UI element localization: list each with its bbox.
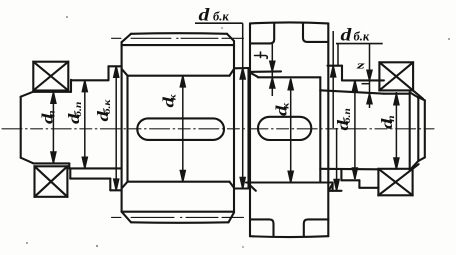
bearing R bottom (square with cross) xyxy=(378,164,418,195)
svg-text:dк: dк xyxy=(160,94,178,108)
keyway right shaft xyxy=(258,117,311,140)
sleeve2 bottom line xyxy=(341,179,359,181)
right end face 2 xyxy=(424,100,426,157)
wheel bore top line dК xyxy=(128,75,230,77)
journal2 top under bearing xyxy=(384,93,410,95)
dim dК right xyxy=(290,79,292,183)
underline label2 xyxy=(336,43,383,45)
wheel top right chamfer xyxy=(227,34,234,41)
wheel bottom face xyxy=(131,221,229,224)
right end mini chamfer top xyxy=(418,97,425,100)
wheel pitch dash-dot bottom xyxy=(112,216,244,218)
right end face 1 xyxy=(417,97,419,161)
bore edge vertical right bottom xyxy=(332,183,334,191)
dim dП left xyxy=(52,92,54,163)
journal dП surface bottom xyxy=(33,162,69,164)
step journal to dБП (top) xyxy=(70,80,72,92)
sleeve2 left face bottom xyxy=(340,169,342,180)
hub bore chamfer bottom xyxy=(122,182,128,188)
step journal to dБП bottom xyxy=(68,163,70,168)
dБП bottom surface (line A) xyxy=(69,167,121,169)
wheel2 bore chamfer left top xyxy=(250,73,257,77)
step dБП to dБК (top) xyxy=(107,66,109,80)
sleeve outer line B xyxy=(70,178,110,180)
wheel2 left face xyxy=(249,23,251,236)
wheel left face xyxy=(121,42,123,212)
svg-text:z: z xyxy=(356,60,366,71)
svg-text:d: d xyxy=(199,5,211,25)
svg-text:dп: dп xyxy=(39,110,57,124)
wheel2 root line top xyxy=(250,70,281,73)
sleeve left face bottom xyxy=(69,168,71,178)
wheel2 top face xyxy=(250,22,328,23)
dim f xyxy=(271,44,273,96)
leader dБК top label1 xyxy=(242,23,244,188)
sleeve2 top surface xyxy=(342,79,384,81)
bore-to-shoulder chamfer right bottom xyxy=(230,182,235,188)
wheel pitch dash-dot top xyxy=(112,37,244,39)
wheel2 rim notch bottom-left xyxy=(250,219,274,236)
dimension lines xyxy=(51,23,399,190)
wheel top face xyxy=(131,32,227,35)
wheel2 bore bottom line xyxy=(246,181,333,183)
wheel2 bottom face xyxy=(250,235,328,238)
svg-text:dб.к: dб.к xyxy=(94,99,112,122)
ring2 bottom surface xyxy=(329,190,342,192)
svg-text:б.к: б.к xyxy=(354,30,370,44)
svg-text:dб.п: dб.п xyxy=(334,108,352,131)
wheel2 rim notch bottom-right xyxy=(304,219,329,236)
hub bore chamfer top xyxy=(122,69,128,75)
journal2 bottom line xyxy=(320,168,378,171)
right end journal edge xyxy=(409,92,411,170)
svg-text:dп: dп xyxy=(378,115,396,129)
right end chamfer top xyxy=(410,93,418,98)
ring2 right face xyxy=(341,66,343,81)
wheel bottom right chamfer xyxy=(229,213,235,223)
shoulder ring right face xyxy=(247,68,249,189)
wheel2 right face xyxy=(327,23,329,236)
sleeve outer line C xyxy=(110,189,121,191)
right end mini chamfer bottom xyxy=(418,157,425,161)
dim dБК right upper xyxy=(332,31,334,128)
svg-text:dк: dк xyxy=(273,102,291,116)
left end chamfer top xyxy=(21,92,34,97)
right end chamfer bottom xyxy=(410,161,418,170)
wheel rim line bottom xyxy=(122,211,234,213)
dim dП right xyxy=(395,92,397,170)
dim dБП right xyxy=(354,81,356,180)
z tick xyxy=(362,83,370,85)
svg-text:б.к: б.к xyxy=(213,10,229,24)
shoulder ring bottom surface xyxy=(234,187,249,189)
label f xyxy=(255,52,268,59)
wheel top left chamfer xyxy=(122,34,131,42)
wheel2 bore top line xyxy=(258,76,321,78)
bearing R top (square with cross) xyxy=(379,62,423,99)
bearing L bottom (square with cross) xyxy=(35,166,68,197)
centerline xyxy=(2,128,434,130)
keyway left shaft xyxy=(137,118,224,139)
sleeve2 step vertical bottom xyxy=(358,180,360,188)
left shaft end face xyxy=(20,97,22,158)
dim dБК left xyxy=(115,66,117,190)
dim dБК right lower xyxy=(336,128,338,191)
bearing L top (square with cross) xyxy=(33,62,68,91)
wheel2 bore chamfer left bottom xyxy=(249,184,256,191)
underline label1 xyxy=(195,22,243,24)
svg-text:dб.п: dб.п xyxy=(65,101,83,124)
ring2 top surface xyxy=(328,65,343,67)
dim dК left xyxy=(182,76,184,182)
wheel right face xyxy=(233,41,235,213)
wheel2 bore edge vertical right xyxy=(319,77,321,182)
dБК top surface xyxy=(109,65,122,67)
dБП top surface xyxy=(71,79,108,81)
underline drop label2 xyxy=(337,44,339,66)
left end chamfer bottom xyxy=(21,158,34,164)
bore-to-shoulder chamfer right top xyxy=(230,69,235,76)
journal2 top line under sleeve xyxy=(320,90,384,93)
dim dБП left xyxy=(84,81,86,169)
wheel rim line top xyxy=(122,44,234,46)
wheel2 rim notch top-right xyxy=(303,23,328,42)
bore edge vertical xyxy=(126,76,128,182)
wheel2 rim notch top-left xyxy=(250,23,274,43)
shoulder ring top surface xyxy=(234,67,249,69)
sleeve2 bottom line 2 xyxy=(359,187,378,189)
wheel bottom left chamfer xyxy=(122,212,131,223)
sleeve step vertical xyxy=(109,179,111,191)
svg-text:d: d xyxy=(341,25,353,45)
wheel bore bottom line xyxy=(128,181,230,183)
journal dП surface top xyxy=(33,91,71,93)
wheel2 bore chamfer right bottom xyxy=(329,184,333,191)
dim z leader xyxy=(369,44,371,108)
